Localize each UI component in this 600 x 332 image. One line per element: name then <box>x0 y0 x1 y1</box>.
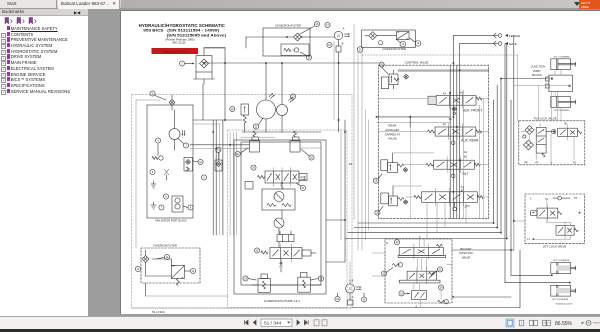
svg-text:28: 28 <box>375 181 378 183</box>
svg-text:24: 24 <box>302 188 305 190</box>
wire center spool down <box>281 183 284 189</box>
svg-text:TILT CYLINDERS: TILT CYLINDERS <box>554 110 571 112</box>
valve spool VS-lower <box>270 244 302 262</box>
spring lower spool <box>261 251 268 254</box>
wire X to tilt lock <box>362 55 551 163</box>
tilt lock filter diamonds <box>523 126 534 151</box>
wire left col <box>136 100 160 248</box>
node 20 <box>290 94 295 99</box>
svg-text:6: 6 <box>165 196 167 198</box>
lift cyl wires <box>505 275 571 284</box>
port label A2 B2 <box>464 151 468 158</box>
svg-text:LS: LS <box>337 35 340 38</box>
svg-text:14: 14 <box>417 43 420 45</box>
svg-text:51 of 344: 51 of 344 <box>152 310 165 314</box>
hydraulic enclosure dashed box <box>132 95 353 309</box>
port label A1 B1 <box>461 186 465 193</box>
filter F1 box <box>196 56 212 73</box>
pump HP1 circle <box>274 192 284 202</box>
svg-text:L1: L1 <box>527 239 530 241</box>
lift port circle <box>453 202 457 211</box>
tank T2 <box>151 202 156 209</box>
LS lower component <box>336 40 341 52</box>
node 28 lift <box>375 207 383 216</box>
svg-text:33: 33 <box>231 109 234 111</box>
node 26 right <box>301 149 314 160</box>
svg-text:AUX. FRONT: AUX. FRONT <box>463 108 482 112</box>
wire ctrl col C <box>463 90 465 219</box>
valve V11 <box>215 160 222 171</box>
svg-text:30: 30 <box>439 269 442 271</box>
svg-text:4 MICRON FILTER: 4 MICRON FILTER <box>382 47 406 51</box>
wire mid columns 2 <box>230 132 236 235</box>
svg-text:REAR: REAR <box>389 124 397 128</box>
gray canvas <box>88 9 600 316</box>
hydrostatic pump mid box <box>234 140 326 294</box>
svg-text:2: 2 <box>540 124 542 127</box>
node 12 topright <box>396 39 406 47</box>
svg-text:20: 20 <box>359 49 362 51</box>
tilt lock valve dashed box <box>519 121 585 165</box>
wire right columns <box>494 36 514 250</box>
svg-text:24: 24 <box>236 154 239 156</box>
fan motor port block box <box>147 105 193 218</box>
wire right col 354 <box>354 24 358 250</box>
wire F2 left node <box>263 36 294 38</box>
control valve label <box>405 61 429 65</box>
wire bucket interior <box>414 239 452 307</box>
node 30 <box>432 267 443 275</box>
rear aux wires <box>377 117 451 127</box>
lift lock valve dashed box <box>525 194 585 243</box>
pump P1 main <box>257 93 276 119</box>
lift label <box>463 205 470 209</box>
sidebar toolbar icons <box>0 16 88 26</box>
orifice symbol <box>169 95 175 110</box>
svg-text:86.55%: 86.55% <box>555 321 573 327</box>
relief valve RVC loop <box>381 77 388 89</box>
bottom dark strip <box>0 329 600 332</box>
relief valve RV4 <box>298 273 311 293</box>
aux rear spool <box>428 124 482 140</box>
node B label bottom <box>352 279 354 283</box>
tilt lock valve label <box>533 116 556 120</box>
control valve dashed box <box>378 65 488 218</box>
svg-text:B: B <box>453 296 455 299</box>
svg-text:TILT: TILT <box>462 172 468 176</box>
pump HP1 box <box>262 189 295 210</box>
pump P2 main <box>277 97 294 115</box>
wire ctrl col D <box>480 99 484 219</box>
aux front spool <box>436 92 482 109</box>
wire right long col <box>505 44 511 283</box>
svg-text:26: 26 <box>310 157 313 159</box>
svg-text:24: 24 <box>244 278 247 280</box>
pump HP2 circle <box>274 218 284 228</box>
svg-text:25: 25 <box>256 250 259 252</box>
port label A4 B4 <box>443 92 463 96</box>
wire LS down <box>338 52 340 63</box>
node 27 <box>379 62 384 67</box>
check valve CV1 spring <box>284 48 299 52</box>
svg-text:953 BICS (S/N 513111594 - 14: 953 BICS (S/N 513111594 - 14999) <box>143 27 219 32</box>
node 24 below <box>297 184 306 191</box>
svg-text:MALE: MALE <box>509 42 517 46</box>
orange corner button <box>579 0 600 10</box>
LS arrows <box>345 33 350 37</box>
svg-text:P2: P2 <box>573 162 577 165</box>
view mode icons + zoom <box>500 316 600 329</box>
wire filter F1 up <box>204 48 225 56</box>
svg-text:16: 16 <box>308 57 311 59</box>
svg-text:21: 21 <box>255 126 258 128</box>
hydrostatic pump label <box>264 299 300 303</box>
fan motor M1 <box>169 118 185 140</box>
wire fan block links <box>174 110 176 150</box>
node 8 <box>183 205 193 210</box>
svg-text:4: 4 <box>157 140 159 142</box>
wire bottom relief <box>252 284 321 286</box>
node 16 <box>300 52 312 60</box>
svg-text:28: 28 <box>376 213 379 215</box>
relief valve RV2 <box>290 131 300 152</box>
node B label bucket <box>415 296 454 309</box>
shuttle valve LS <box>334 31 342 39</box>
svg-text:22: 22 <box>349 288 352 291</box>
dark dropdown arrow <box>574 2 580 6</box>
nav controls <box>238 316 358 329</box>
lift lock wires <box>533 201 580 240</box>
wire bucket left entry <box>372 253 385 276</box>
wire lower spool down <box>280 259 283 273</box>
wire spool levels <box>378 99 488 198</box>
svg-text:19: 19 <box>328 45 331 47</box>
wire junction joins <box>501 79 570 121</box>
wire 22 links <box>338 262 365 297</box>
tilt lock wires <box>521 132 574 160</box>
svg-text:A2: A2 <box>464 151 468 154</box>
node 3 <box>178 139 189 149</box>
svg-text:PT: PT <box>574 197 578 200</box>
RVC wires <box>382 67 489 89</box>
4 micron filter box <box>362 30 416 47</box>
bottom toolbar <box>0 316 600 329</box>
wire junction to tiltlock <box>552 92 558 121</box>
gear pump GP <box>172 196 183 212</box>
25 micron filter label <box>275 24 300 28</box>
wire tiltcyl links <box>555 70 561 121</box>
bucket WO lower <box>438 300 449 304</box>
tilt lock port labels <box>524 162 576 166</box>
svg-text:20: 20 <box>292 96 295 98</box>
tilt port circle <box>451 169 455 178</box>
pump CP circle 22 <box>346 284 362 293</box>
filter F3 diamond <box>142 250 149 270</box>
junction block ports <box>546 77 571 88</box>
arrow node1 to filter <box>185 63 194 65</box>
lift lock spool lower <box>556 222 578 239</box>
node B label <box>342 42 344 46</box>
filter F4 check <box>379 41 383 45</box>
node 5 <box>201 175 206 180</box>
tilt spool <box>426 157 480 173</box>
wire bottom long <box>132 250 521 308</box>
RVC diamond <box>404 74 409 79</box>
node 24 bottom-right <box>311 276 324 281</box>
port label A3 <box>443 118 453 126</box>
spring center spool <box>258 176 265 179</box>
svg-text:B: B <box>352 279 354 283</box>
tilt cylinder 1 <box>551 56 576 69</box>
node 21 <box>253 118 263 129</box>
valve V10 <box>184 158 193 172</box>
bucket WO upper <box>392 263 402 267</box>
svg-text:B: B <box>342 42 344 46</box>
servo block <box>277 231 294 242</box>
relief valve RVC <box>389 74 399 85</box>
node 11 <box>216 147 221 160</box>
filter F4 diamond <box>369 32 377 40</box>
node 19 <box>327 42 332 47</box>
node 26 center <box>251 165 256 170</box>
spool extension <box>299 174 307 181</box>
svg-text:A: A <box>352 295 354 299</box>
node 24 bottom-left <box>243 276 256 281</box>
lift cylinder 2 <box>551 285 576 301</box>
svg-text:B1: B1 <box>449 118 453 121</box>
wire ctrl inner dashed <box>410 115 412 219</box>
wire D2 col2 <box>340 130 342 240</box>
3 micron filter dashed box <box>141 248 200 283</box>
heat exchanger HX <box>171 265 184 278</box>
svg-text:29: 29 <box>396 242 399 244</box>
svg-text:25 MICRON FILTER: 25 MICRON FILTER <box>275 24 300 28</box>
tilt label <box>462 172 468 176</box>
wire relief row <box>241 137 321 148</box>
svg-text:HYDROSTATIC PUMP 1 & 2: HYDROSTATIC PUMP 1 & 2 <box>264 299 300 303</box>
svg-text:26: 26 <box>252 168 255 170</box>
sidebar body <box>0 16 88 316</box>
node 18 <box>300 21 320 34</box>
svg-text:13: 13 <box>383 273 386 275</box>
svg-text:10: 10 <box>199 162 202 164</box>
relief valve RV1 <box>250 131 260 152</box>
svg-text:FEMALE: FEMALE <box>509 34 520 38</box>
connector FEMALE <box>494 33 521 38</box>
svg-text:15: 15 <box>363 299 366 301</box>
node 9 <box>150 169 155 174</box>
node 6 <box>163 194 168 199</box>
svg-text:A: A <box>415 306 417 309</box>
wire bottom left <box>146 283 228 296</box>
page number text <box>152 310 165 314</box>
svg-text:LIFT CYLINDERS: LIFT CYLINDERS <box>553 260 570 262</box>
bookmarks panel header <box>0 9 88 16</box>
svg-text:A: A <box>343 27 345 31</box>
wire pump bottom <box>242 116 321 133</box>
node L1 <box>527 238 534 241</box>
svg-text:(MC-2110): (MC-2110) <box>172 40 185 44</box>
svg-text:24: 24 <box>336 299 339 301</box>
node 17 <box>325 22 330 27</box>
page <box>121 11 600 314</box>
junction port block label <box>531 65 545 78</box>
svg-text:PT: PT <box>535 162 539 165</box>
wire mid horizontals <box>190 84 249 149</box>
node 25 <box>254 248 259 253</box>
node 4 <box>155 138 160 143</box>
wire lift lock entry <box>514 221 525 250</box>
bucket lower valve <box>412 290 427 299</box>
node C label <box>386 236 421 245</box>
lift lock port labels <box>530 197 578 201</box>
svg-text:VALVE: VALVE <box>388 137 397 141</box>
svg-text:12: 12 <box>402 44 405 46</box>
node 24 left <box>235 148 248 157</box>
node 14 <box>184 268 195 273</box>
wire right turns <box>345 223 507 239</box>
CP lower box <box>348 293 354 305</box>
check valve CV1 box <box>281 44 309 56</box>
valve X symbol <box>164 169 169 180</box>
tilt cylinder 2 <box>551 97 576 112</box>
lift lock spool upper <box>537 205 562 222</box>
hydrostatic pump inner box <box>241 142 321 285</box>
svg-text:17: 17 <box>326 25 329 27</box>
relief valve RV3 <box>258 274 271 292</box>
svg-text:3 MICRON FILTER: 3 MICRON FILTER <box>153 244 177 248</box>
4 micron filter label <box>382 47 406 51</box>
svg-text:PP: PP <box>524 162 528 165</box>
svg-text:P1: P1 <box>545 198 549 201</box>
redaction watermark bar <box>152 48 199 54</box>
wire lift ports down <box>427 202 466 239</box>
wire F2 right node <box>301 36 310 38</box>
svg-text:7: 7 <box>161 207 163 209</box>
page title text <box>139 23 227 45</box>
node 14 topright <box>410 38 421 46</box>
aux rear label <box>461 139 479 143</box>
node 20 topleft <box>357 47 363 53</box>
lift lock pilot box <box>531 211 537 216</box>
svg-text:11: 11 <box>137 269 140 271</box>
svg-text:5: 5 <box>203 177 205 179</box>
svg-text:www.epcatalogs.com: www.epcatalogs.com <box>163 49 187 53</box>
aux front port diamond <box>452 107 457 115</box>
lift spool <box>414 188 483 206</box>
relief valve RVT <box>381 160 408 173</box>
node 12 <box>156 254 170 259</box>
wire pump top <box>266 63 282 105</box>
node 33 <box>230 106 235 111</box>
node 11 left <box>135 266 140 271</box>
25 micron filter box <box>263 28 310 56</box>
rear auxiliary note <box>385 124 401 141</box>
svg-text:24: 24 <box>320 278 323 280</box>
bucket position valve label <box>459 247 472 259</box>
wire bucket right <box>452 250 514 297</box>
svg-text:9013023 (11-01-97): 9013023 (11-01-97) <box>556 303 573 305</box>
svg-text:D: D <box>386 242 388 245</box>
node 29 <box>394 240 399 245</box>
svg-text:X: X <box>530 197 532 200</box>
node 10 <box>193 159 204 164</box>
node 28 tilt <box>373 174 382 183</box>
tank T1 <box>151 181 156 188</box>
bucket position valve dashed box <box>385 239 452 303</box>
valve spool VS-center <box>265 168 299 187</box>
svg-text:B2: B2 <box>464 156 468 159</box>
cylinder note <box>556 303 573 305</box>
wire ctrl col A <box>450 65 453 218</box>
tilt lock right spool <box>558 124 582 141</box>
pump HP1 springs <box>267 204 291 207</box>
aux rear port circle <box>451 136 455 145</box>
svg-text:14: 14 <box>192 271 195 273</box>
wire LS col down <box>334 41 339 132</box>
svg-text:LIFT: LIFT <box>463 205 470 209</box>
node A label <box>343 27 345 31</box>
tilt lock spool vertical <box>536 124 546 157</box>
RVL wires <box>393 186 422 196</box>
svg-text:A4: A4 <box>443 92 447 95</box>
RVT wires <box>393 153 434 163</box>
small box left <box>245 182 253 190</box>
connector MALE <box>494 41 517 46</box>
wire mid columns <box>213 120 223 235</box>
node 7 <box>159 205 164 210</box>
svg-text:12: 12 <box>166 257 169 259</box>
svg-text:LIFT LOCK VALVE: LIFT LOCK VALVE <box>543 245 567 249</box>
lift lock check top <box>553 196 570 200</box>
svg-text:VALVE: VALVE <box>462 255 471 259</box>
node A label bottom <box>352 295 354 299</box>
node 24 near CP <box>335 296 340 301</box>
wire 3micron <box>146 259 172 276</box>
svg-text:24: 24 <box>440 287 443 289</box>
filter F1 tank <box>194 72 215 84</box>
spring HX <box>177 278 180 285</box>
bucket spool upper <box>398 244 446 259</box>
wire D2 col <box>345 120 353 262</box>
tilt lock check <box>546 129 556 133</box>
lift cylinder 1 <box>551 260 576 274</box>
svg-text:9: 9 <box>152 172 154 174</box>
svg-text:CONTROL VALVE: CONTROL VALVE <box>405 61 429 65</box>
spool extension lower <box>302 250 316 256</box>
tab bar <box>0 0 600 9</box>
wire connectors left <box>453 36 498 65</box>
svg-text:A3: A3 <box>443 123 447 126</box>
svg-text:TILT LOCK VALVE: TILT LOCK VALVE <box>533 116 556 120</box>
svg-text:8: 8 <box>190 207 192 209</box>
3 micron filter label <box>153 244 177 248</box>
svg-text:LIFT CYLINDERS: LIFT CYLINDERS <box>552 299 569 301</box>
svg-text:51 / 344: 51 / 344 <box>264 321 282 327</box>
svg-text:18: 18 <box>316 24 319 26</box>
svg-text:FAN MOTOR PORT BLOCK: FAN MOTOR PORT BLOCK <box>155 220 187 223</box>
svg-text:CAPPED AT: CAPPED AT <box>385 132 401 136</box>
wire main top horizontal <box>204 48 378 120</box>
wire top filter line <box>246 37 334 48</box>
node 24 bucket <box>439 285 444 290</box>
wire 4micron <box>365 35 396 37</box>
relief valve RVL <box>381 193 408 206</box>
svg-text:32: 32 <box>400 293 403 295</box>
heat exchanger HX2 <box>396 32 409 40</box>
junction port block box <box>549 75 573 92</box>
hydrostatic pump outer box <box>228 130 347 308</box>
